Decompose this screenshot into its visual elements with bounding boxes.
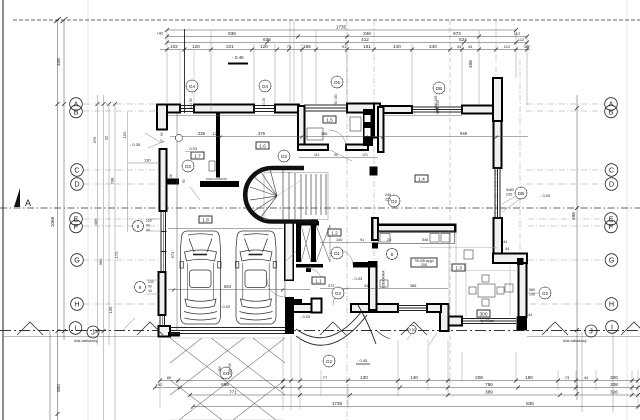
- wall corner block bottom-right: [517, 317, 528, 331]
- node A right: [605, 98, 618, 111]
- svg-text:1.2: 1.2: [331, 231, 338, 237]
- node B right: [605, 105, 618, 118]
- wall top right wing piece: [380, 106, 412, 113]
- boundary line left: [3, 336, 157, 338]
- svg-text:1.8: 1.8: [202, 218, 209, 224]
- stair vertical treads right flight: [306, 174, 326, 215]
- svg-text:44: 44: [505, 247, 509, 251]
- svg-text:973: 973: [453, 31, 461, 36]
- svg-text:D: D: [609, 180, 614, 189]
- svg-text:POM.GOSPOD.: POM.GOSPOD.: [206, 177, 228, 181]
- car 1: [180, 231, 221, 324]
- svg-text:91: 91: [342, 44, 347, 49]
- svg-text:389: 389: [485, 390, 493, 395]
- kitchen stove: [380, 234, 390, 243]
- svg-text:- 0.35: - 0.35: [130, 142, 141, 147]
- svg-text:388: 388: [410, 284, 416, 288]
- walls group: [157, 78, 527, 337]
- svg-text:1.6: 1.6: [259, 144, 266, 150]
- kitchen guide horizontals: [420, 248, 518, 271]
- boundary line right: [527, 336, 640, 338]
- node H left: [71, 298, 84, 311]
- svg-text:91: 91: [360, 238, 364, 242]
- svg-text:38F: 38F: [524, 44, 531, 49]
- top dimension labels: [157, 25, 531, 64]
- svg-text:O6: O6: [334, 80, 341, 85]
- shaft bottom bar: [296, 264, 323, 268]
- svg-text:linia zabudowy: linia zabudowy: [563, 339, 587, 343]
- wall top right-center thick: [347, 104, 377, 113]
- dim line y157 small rooms: [299, 157, 378, 159]
- wall top mid segment: [194, 105, 254, 113]
- node B left: [70, 105, 83, 118]
- svg-text:O2: O2: [391, 199, 398, 204]
- svg-text:44: 44: [146, 228, 150, 232]
- stairs group: [245, 168, 328, 222]
- pillar entrance white square: [312, 299, 322, 313]
- svg-text:+92: +92: [157, 31, 165, 36]
- svg-text:206: 206: [421, 263, 427, 267]
- bottom dimension chains: [153, 336, 640, 410]
- axis vertical dash-dot x496: [495, 20, 497, 254]
- entrance corner piece: [288, 299, 302, 304]
- chimney extension lines: [290, 20, 294, 104]
- bottom extension verticals: [160, 336, 638, 410]
- car 2: [236, 231, 277, 324]
- svg-text:120: 120: [192, 44, 200, 49]
- window top O6: [412, 107, 462, 113]
- window marker 8 a: [133, 221, 144, 232]
- node C right: [605, 164, 618, 177]
- tick slashes top rows: [165, 28, 529, 52]
- svg-text:386: 386: [321, 132, 327, 136]
- garage corner sill: [168, 332, 180, 337]
- svg-text:D3: D3: [185, 164, 191, 169]
- shaft X hatches: [301, 225, 330, 262]
- node F left: [70, 220, 83, 233]
- svg-text:O 03: O 03: [408, 328, 415, 332]
- svg-text:135: 135: [108, 306, 113, 313]
- window marker 8 c: [387, 249, 398, 260]
- svg-text:D3: D3: [281, 154, 287, 159]
- top dimension chains: [160, 20, 530, 113]
- chair right: [497, 287, 504, 294]
- svg-text:140: 140: [410, 375, 418, 380]
- room number boxes: [191, 116, 490, 318]
- left dimension chain: [50, 18, 160, 420]
- svg-text:90: 90: [148, 285, 152, 289]
- chair bottom: [482, 299, 489, 306]
- node I right: [606, 321, 619, 334]
- svg-text:+92: +92: [156, 382, 164, 387]
- small annotation texts: [74, 94, 587, 375]
- svg-text:H: H: [74, 300, 79, 309]
- window marker O4 a: [186, 80, 198, 92]
- inner face line right wing: [384, 114, 462, 116]
- svg-text:406: 406: [56, 58, 61, 66]
- svg-text:636: 636: [263, 37, 271, 42]
- hall wall horizontal y262: [353, 262, 376, 268]
- room1.5 bottom wall left: [298, 145, 328, 151]
- svg-text:1.5: 1.5: [326, 118, 333, 124]
- garage right wall hollow: [285, 221, 294, 280]
- hall wall vertical x369: [369, 262, 377, 310]
- door swing D3 room1.5: [329, 130, 346, 147]
- node C left: [71, 164, 84, 177]
- window top O4 left: [180, 105, 194, 112]
- svg-text:92: 92: [104, 135, 109, 140]
- svg-text:300: 300: [479, 312, 487, 318]
- black block below bathroom: [370, 167, 378, 176]
- stair rail C-shape: [245, 168, 318, 222]
- svg-text:B: B: [74, 108, 79, 117]
- svg-text:215: 215: [385, 198, 391, 202]
- svg-text:77: 77: [323, 375, 328, 380]
- svg-text:235+35: 235+35: [228, 363, 232, 375]
- svg-text:298: 298: [110, 177, 115, 184]
- svg-text:120: 120: [260, 44, 268, 49]
- garage vertical dim x177: [176, 113, 178, 330]
- interior wall bar pom.gosp: [200, 181, 239, 187]
- svg-text:- 0.46: - 0.46: [232, 55, 244, 60]
- marker O2 hall: [388, 195, 400, 207]
- porch step arcs: [296, 305, 390, 345]
- wall step horizontal right: [493, 254, 527, 264]
- svg-text:130: 130: [144, 158, 151, 163]
- node D left: [71, 178, 84, 191]
- garage door lines: [170, 328, 285, 334]
- sheet border left: [2, 0, 4, 420]
- row 636/412/524: [167, 42, 527, 44]
- kitchen wall vertical: [372, 218, 378, 240]
- svg-text:DB: DB: [518, 191, 524, 196]
- svg-text:- 0.03: - 0.03: [540, 193, 551, 198]
- svg-text:A: A: [25, 198, 31, 208]
- dim line y288 hall: [320, 288, 448, 290]
- svg-text:J: J: [589, 327, 593, 336]
- desk room 1.7: [307, 128, 323, 140]
- shaft door stub: [306, 268, 311, 272]
- door swing shaft-hall: [307, 268, 323, 284]
- kitchen sink 2: [441, 234, 450, 243]
- furniture group: [168, 115, 513, 306]
- door marker DB top: [433, 82, 445, 94]
- node F right: [605, 220, 618, 233]
- svg-text:412: 412: [361, 37, 369, 42]
- svg-text:120: 120: [146, 219, 152, 223]
- wall garage corner bottom-left: [159, 326, 171, 337]
- svg-text:C: C: [74, 166, 79, 175]
- room1.5 left wall: [298, 106, 305, 148]
- svg-text:1.4: 1.4: [418, 177, 425, 183]
- svg-text:DB: DB: [436, 86, 442, 91]
- svg-text:308: 308: [610, 382, 618, 387]
- cabinet square top: [464, 250, 473, 259]
- room1.5 bottom wall right: [346, 145, 368, 151]
- inner face line room 1.6: [168, 114, 298, 116]
- svg-text:- 0.03: - 0.03: [352, 276, 363, 281]
- svg-text:8: 8: [391, 252, 394, 257]
- wall left mid: [159, 272, 166, 315]
- grid axis circles: [69, 98, 618, 338]
- shaft right wall: [311, 219, 316, 262]
- axis vertical x456 thin: [455, 230, 457, 317]
- garage dim line y289.5: [168, 289, 310, 291]
- bottom ticks: [153, 379, 640, 409]
- svg-text:G: G: [74, 256, 80, 265]
- svg-text:9x60: 9x60: [506, 188, 514, 192]
- window marker O4 b: [259, 80, 271, 92]
- svg-text:480: 480: [218, 366, 222, 372]
- svg-text:linia zabudowy: linia zabudowy: [74, 339, 98, 343]
- kitchen sink 1: [430, 234, 439, 243]
- node J right: [585, 325, 597, 337]
- garage top dim line y228.5: [168, 228, 283, 230]
- fixture white notch 2: [365, 128, 371, 136]
- wall right vertical lower: [494, 218, 503, 262]
- cabinet right: [505, 284, 513, 292]
- window marker lines left wall: [146, 219, 160, 294]
- window top O4 right: [254, 105, 275, 112]
- svg-text:800: 800: [56, 384, 61, 392]
- svg-text:300: 300: [610, 375, 618, 380]
- wall right vertical mid: [494, 121, 502, 168]
- svg-text:H: H: [609, 300, 614, 309]
- svg-text:380: 380: [98, 258, 103, 265]
- svg-text:130: 130: [360, 375, 368, 380]
- wall x378 vertical: [378, 107, 384, 152]
- inner construction verticals: [98, 95, 128, 420]
- svg-text:44: 44: [468, 44, 473, 49]
- svg-text:112: 112: [518, 37, 525, 42]
- window marker 8 b: [135, 282, 146, 293]
- svg-text:656: 656: [221, 382, 229, 387]
- svg-text:102: 102: [170, 44, 178, 49]
- wall top segment right of window O4: [275, 105, 299, 113]
- stair radial treads: [250, 169, 277, 217]
- svg-text:8: 8: [137, 224, 140, 229]
- washer room 1.5: [350, 117, 361, 131]
- svg-text:90: 90: [182, 179, 186, 183]
- svg-text:172: 172: [114, 251, 119, 258]
- pale yellow guideline right: [626, 0, 628, 420]
- svg-text:180: 180: [525, 375, 533, 380]
- pale yellow guideline left: [87, 0, 89, 420]
- axis vertical dash-dot x520: [519, 60, 521, 254]
- svg-text:150: 150: [122, 131, 127, 138]
- dim line y136.5 across rooms: [170, 136, 528, 138]
- wall right of garage door solid: [285, 297, 294, 334]
- node E right: [605, 213, 618, 226]
- wall top-left corner vertical: [157, 105, 167, 130]
- svg-text:75: 75: [287, 44, 292, 49]
- svg-text:LODOWKA: LODOWKA: [382, 270, 386, 288]
- svg-text:- 0.03: - 0.03: [300, 314, 311, 319]
- svg-text:O4: O4: [262, 84, 269, 89]
- door swing D2 entrance: [333, 288, 350, 305]
- living room verticals: [449, 230, 510, 317]
- window right wall vertical: [495, 168, 501, 218]
- axis A dash-dot line mid: [0, 207, 640, 209]
- leader dash lines: [83, 104, 604, 304]
- heavy grid extension x184.5: [184, 29, 186, 113]
- extension verticals from chains: [167, 30, 527, 112]
- chair left: [469, 287, 476, 294]
- wall left upper (below corner): [160, 149, 167, 211]
- svg-text:771: 771: [229, 390, 237, 395]
- svg-text:140: 140: [336, 238, 342, 242]
- svg-text:564: 564: [224, 284, 232, 289]
- wall bottom segment A1: [351, 304, 398, 312]
- svg-text:1735: 1735: [336, 25, 347, 30]
- door swing D1 garage: [267, 279, 285, 297]
- axis vertical dash-dot x347: [346, 20, 348, 420]
- stair vertical treads upper: [283, 170, 301, 220]
- svg-text:786: 786: [485, 382, 493, 387]
- svg-text:26: 26: [169, 174, 173, 178]
- svg-text:560: 560: [529, 288, 535, 292]
- svg-text:674: 674: [170, 251, 175, 258]
- svg-text:1.3: 1.3: [455, 266, 462, 272]
- chair top: [482, 275, 489, 282]
- wall chimney right vertical upper: [493, 78, 502, 121]
- svg-text:140 90: 140 90: [189, 98, 193, 108]
- windows thin group: [160, 105, 516, 334]
- svg-text:44: 44: [457, 44, 462, 49]
- wall stub left y181: [167, 179, 179, 185]
- svg-text:1068: 1068: [50, 216, 55, 227]
- svg-text:O2: O2: [542, 291, 549, 296]
- row 838/348/973: [167, 36, 527, 38]
- svg-text:1.7: 1.7: [194, 154, 201, 160]
- svg-text:838: 838: [228, 31, 236, 36]
- leader diagonal lines: [123, 133, 538, 345]
- window top room1.5: [304, 105, 347, 111]
- svg-text:221: 221: [226, 44, 234, 49]
- door marker D3 a: [182, 160, 194, 172]
- svg-text:- 0.45: - 0.45: [357, 358, 368, 363]
- svg-text:140: 140: [393, 44, 401, 49]
- small circle dim 1.7: [176, 135, 183, 142]
- svg-text:I: I: [75, 324, 77, 333]
- interior wall vertical x216: [216, 113, 220, 178]
- row 1735: [167, 29, 516, 31]
- wall corner block right: [517, 258, 524, 265]
- svg-text:406: 406: [468, 60, 473, 68]
- node A left: [70, 98, 83, 111]
- door marker D3 b: [278, 150, 290, 162]
- window left wall 1: [161, 211, 167, 272]
- svg-text:524: 524: [459, 37, 467, 42]
- svg-text:I: I: [611, 323, 613, 332]
- svg-text:326: 326: [610, 390, 618, 395]
- svg-text:- 0.03: - 0.03: [187, 146, 198, 151]
- node D right: [605, 178, 618, 191]
- table living room: [478, 284, 495, 297]
- svg-text:44: 44: [528, 313, 532, 317]
- marker SG: [220, 367, 232, 379]
- kitchen wall horizontal: [376, 225, 456, 232]
- svg-text:C: C: [609, 166, 614, 175]
- svg-text:90: 90: [160, 132, 164, 136]
- window marker O6: [331, 76, 343, 88]
- kitchen counter: [379, 232, 455, 244]
- marker circles with codes: [133, 76, 552, 379]
- svg-text:8: 8: [139, 285, 142, 290]
- node G left: [71, 254, 84, 267]
- svg-text:1.1: 1.1: [315, 279, 322, 285]
- svg-text:111: 111: [314, 153, 319, 157]
- svg-text:G2: G2: [326, 359, 333, 364]
- driveway hatch: [170, 338, 285, 420]
- svg-text:948: 948: [460, 131, 468, 136]
- marker O03 triangle circle: [408, 325, 416, 333]
- svg-text:228: 228: [198, 131, 206, 136]
- svg-text:24: 24: [387, 238, 391, 242]
- svg-text:44: 44: [584, 375, 589, 380]
- window edge extension lines: [180, 50, 194, 104]
- svg-text:44: 44: [503, 240, 507, 244]
- bathroom fixture band: [363, 109, 373, 146]
- wall bottom segment A2: [427, 304, 441, 312]
- svg-text:112: 112: [514, 31, 521, 36]
- stair walk line diagonal: [277, 181, 300, 196]
- marker G2 bottom: [323, 355, 335, 367]
- svg-text:9x60 235: 9x60 235: [436, 100, 440, 114]
- wall entrance segment: [286, 304, 321, 312]
- svg-text:1735: 1735: [332, 401, 343, 406]
- marker O2 right: [539, 287, 551, 299]
- svg-text:208: 208: [475, 375, 483, 380]
- node J left: [87, 326, 99, 338]
- svg-text:376: 376: [92, 136, 97, 143]
- node G right: [605, 254, 618, 267]
- svg-text:161: 161: [363, 44, 371, 49]
- svg-text:G2: G2: [335, 291, 342, 296]
- svg-text:O4: O4: [189, 84, 196, 89]
- svg-text:698: 698: [571, 212, 576, 220]
- svg-text:348: 348: [363, 31, 371, 36]
- wall bottom jog vertical: [440, 304, 449, 331]
- door swing hall-kitchen: [338, 250, 353, 265]
- shaft left wall: [296, 225, 301, 262]
- svg-text:90: 90: [146, 224, 150, 228]
- dim line y242 kitchen: [320, 242, 372, 244]
- node H right: [605, 298, 618, 311]
- window bottom x398: [398, 306, 427, 311]
- svg-text:835: 835: [526, 401, 534, 406]
- fixture white notch 1: [365, 115, 371, 122]
- svg-text:44: 44: [148, 289, 152, 293]
- wall top-left corner horizontal: [157, 105, 180, 113]
- axis vertical dash-dot x374: [373, 20, 375, 270]
- door marker DB right: [515, 187, 527, 199]
- svg-text:112: 112: [504, 44, 511, 49]
- svg-text:F: F: [609, 222, 614, 231]
- svg-text:240: 240: [429, 44, 437, 49]
- linia zabudowy dash-dot line: [0, 330, 640, 332]
- wall top right wing piece 3: [462, 106, 494, 114]
- svg-text:165: 165: [303, 44, 311, 49]
- svg-text:F: F: [74, 222, 79, 231]
- svg-text:D: D: [74, 180, 79, 189]
- svg-text:546: 546: [422, 238, 428, 242]
- svg-text:90 150: 90 150: [334, 94, 338, 104]
- svg-text:G: G: [609, 256, 615, 265]
- interior dimension lines: [146, 113, 528, 330]
- axis vertical dashed x450: [449, 20, 451, 384]
- zabudowy triangles: [17, 322, 640, 335]
